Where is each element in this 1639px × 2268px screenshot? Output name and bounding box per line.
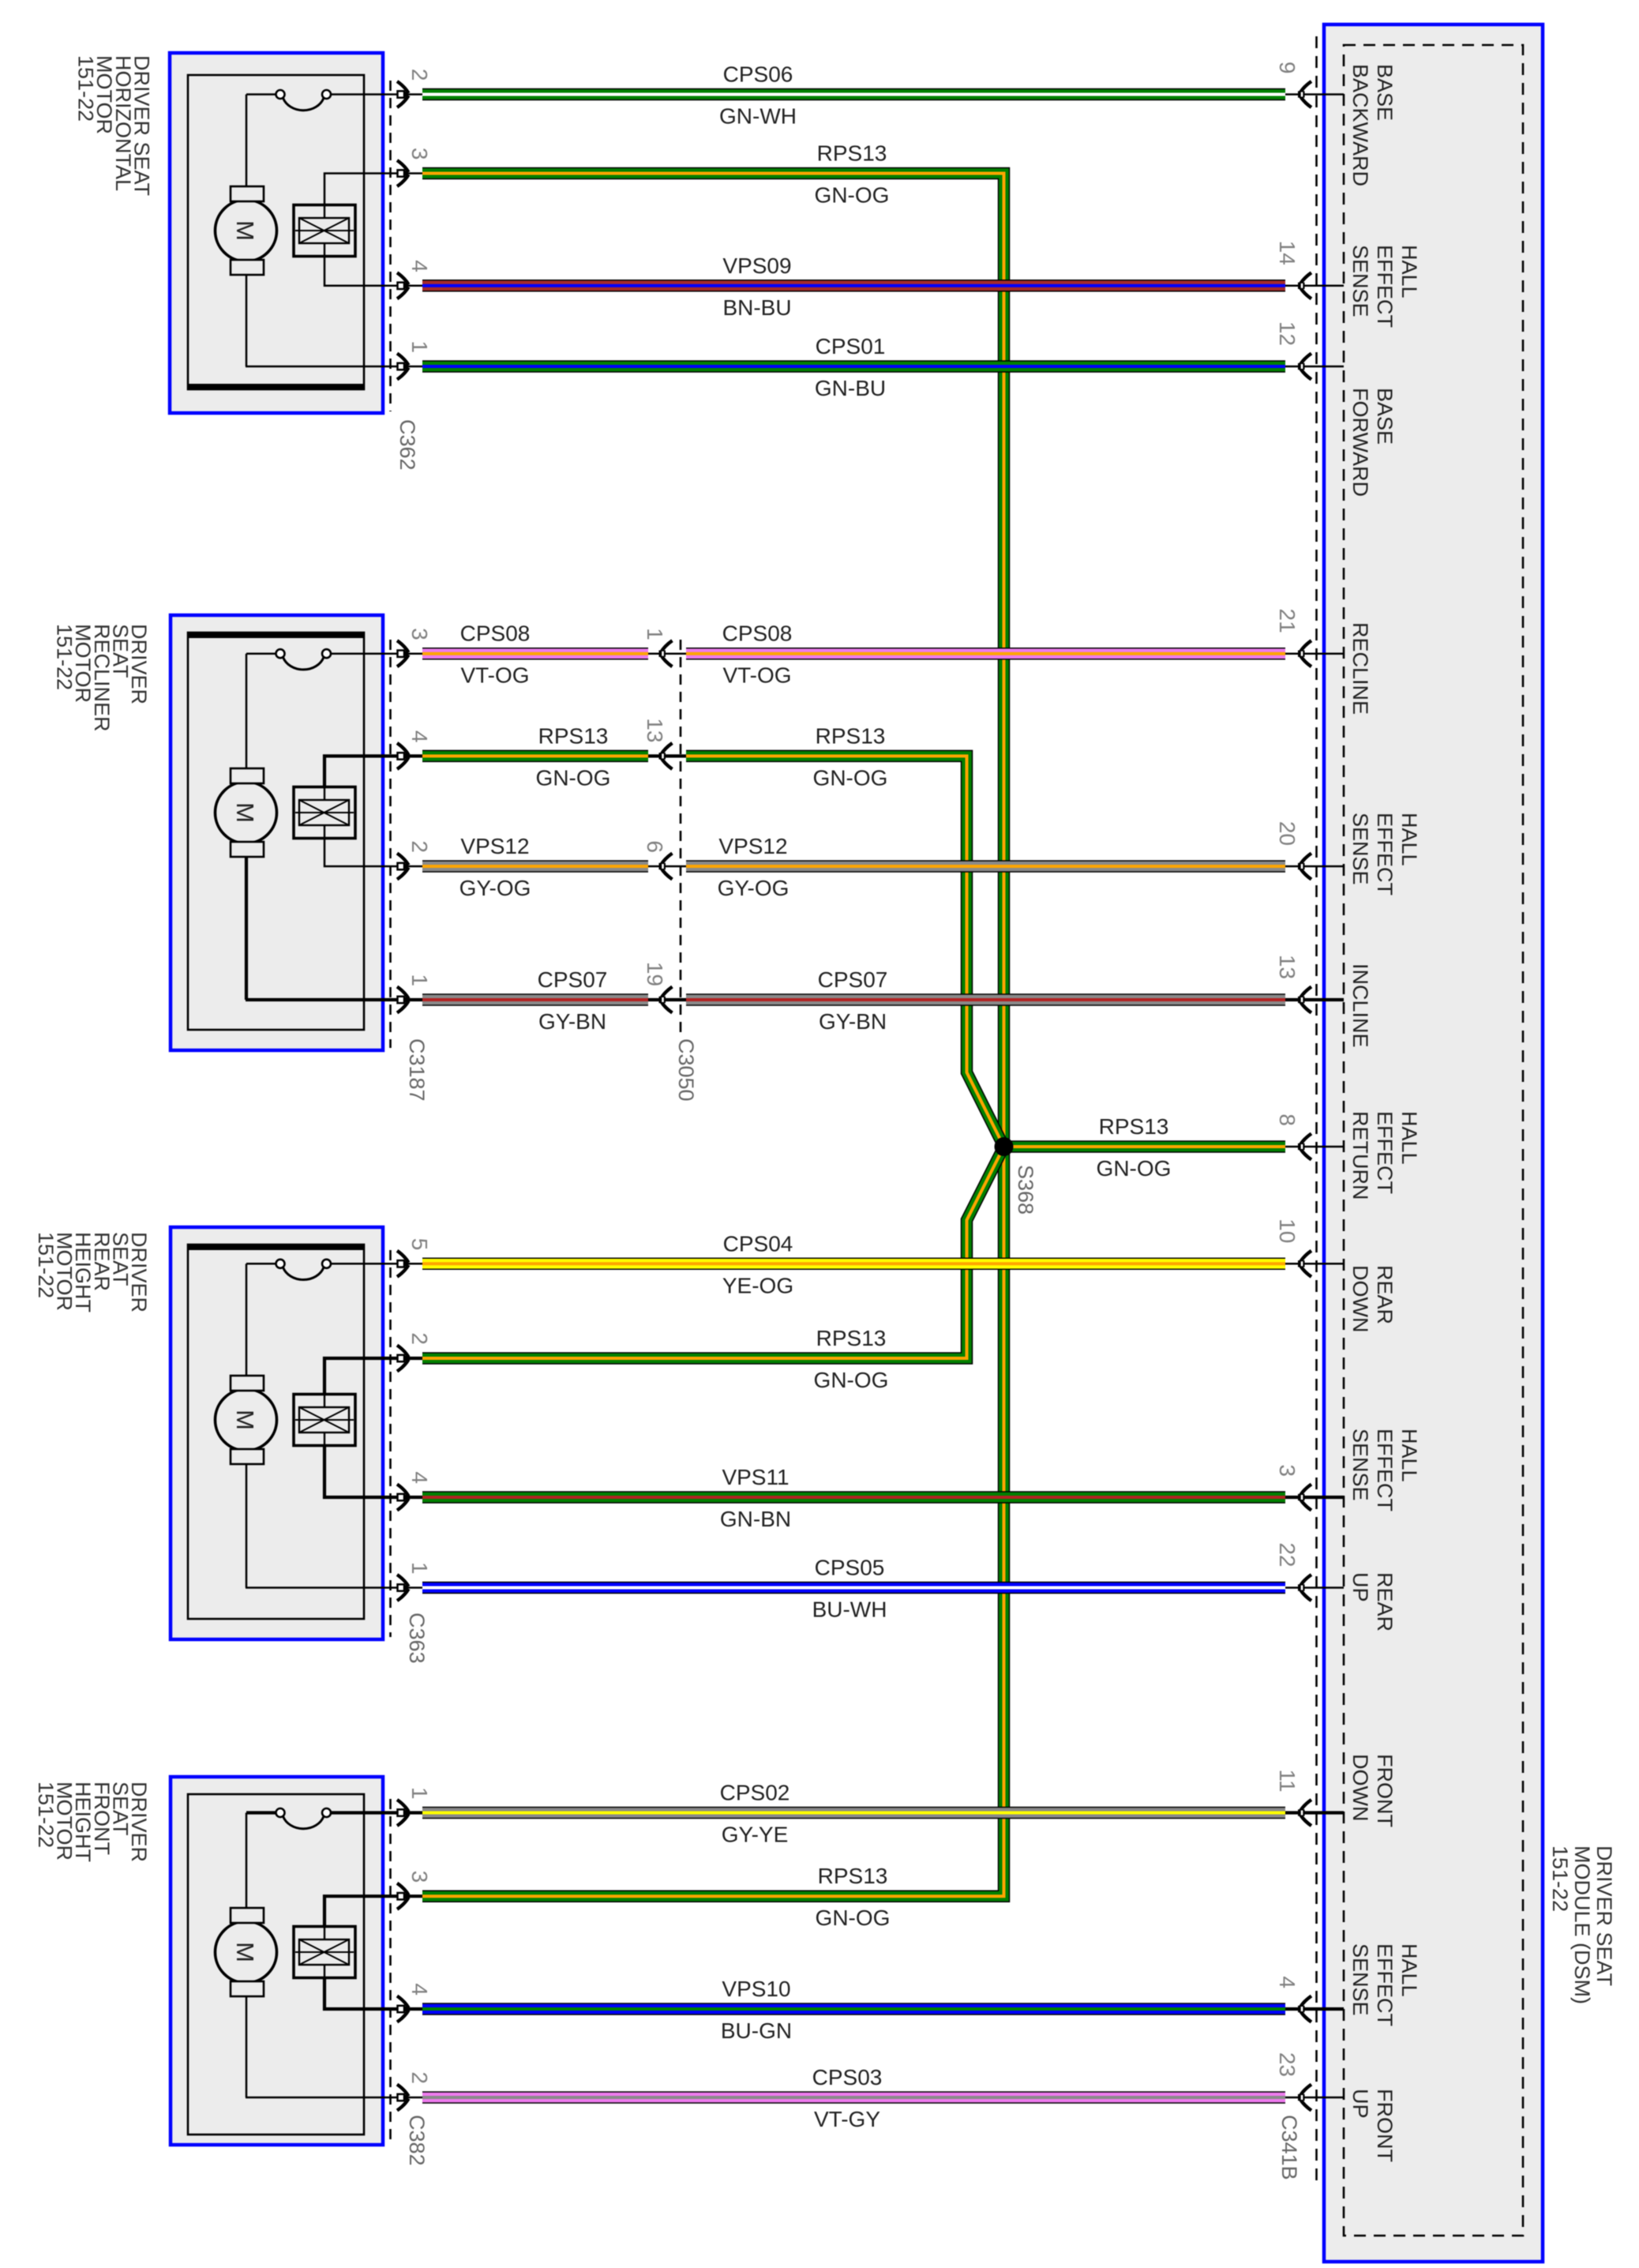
motor 1 top terminal rect xyxy=(231,186,264,201)
motor 1 circle xyxy=(216,200,277,261)
motor 2 wire motor-bottom vertical xyxy=(245,857,248,1000)
motor pin 3 lead line at y=219.5 xyxy=(384,172,422,175)
motor pin 1 lead line at y=2010.5 xyxy=(384,1586,422,1589)
wire CPS08 VT-OG C3050 to DSM pin21 (right segment row5) xyxy=(686,648,1285,660)
motor 4 hall sensor top stub xyxy=(324,1927,325,1940)
svg-text:VT-OG: VT-OG xyxy=(460,663,529,688)
svg-text:M: M xyxy=(231,1942,259,1962)
motor pin 3 connector arrow xyxy=(397,640,410,667)
svg-text:RECLINE: RECLINE xyxy=(1348,622,1372,715)
svg-text:GN-OG: GN-OG xyxy=(815,183,890,208)
svg-text:DRIVER SEAT: DRIVER SEAT xyxy=(1592,1846,1616,1986)
DSM pin 21 connector arrow xyxy=(1298,640,1311,667)
motor 1 hall sensor inner box xyxy=(299,218,349,243)
svg-text:VPS12: VPS12 xyxy=(718,834,787,858)
motor 3 top terminal rect xyxy=(231,1376,264,1391)
svg-text:C341B: C341B xyxy=(1277,2115,1301,2180)
svg-text:4: 4 xyxy=(407,730,432,743)
motor 2 bottom terminal rect xyxy=(231,842,264,857)
motor box 4 outline (DRIVER SEAT FRONT HEIGHT MOTOR) xyxy=(171,1777,383,2145)
svg-text:DOWN: DOWN xyxy=(1348,1265,1372,1332)
motor 3 hall sensor top stub xyxy=(324,1395,325,1408)
motor 4 jumper left terminal circle xyxy=(276,1808,285,1817)
wire CPS04 YE-OG motor3 pin5 to DSM pin10 (row10) xyxy=(422,1258,1285,1271)
svg-text:CPS01: CPS01 xyxy=(816,334,886,359)
motor pin 2 lead line at y=119.5 xyxy=(384,93,422,96)
inline connector C3050 pin 13 arrow xyxy=(659,743,673,769)
motor pin 2 lead line at y=1720.0 xyxy=(384,1357,422,1360)
motor 3 inner rectangle xyxy=(188,1245,364,1619)
svg-text:VPS12: VPS12 xyxy=(460,834,529,858)
svg-text:13: 13 xyxy=(1275,955,1300,979)
motor 2 hall sensor bottom stub xyxy=(324,825,325,839)
svg-text:4: 4 xyxy=(407,1983,432,1996)
motor pin 2 connector arrow xyxy=(397,2085,410,2111)
motor box 1 outline (DRIVER SEAT HORIZONTAL MOTOR) xyxy=(170,53,383,413)
svg-text:151-22: 151-22 xyxy=(34,1782,58,1848)
motor pin 5 lead line at y=1600.3 xyxy=(384,1263,422,1265)
motor 2 inner top thick bar xyxy=(188,633,364,638)
wire CPS02 GY-YE motor4 pin1 to DSM pin11 (row14) xyxy=(422,1807,1285,1819)
motor 3 hall sensor bottom stub xyxy=(324,1433,325,1446)
svg-text:2: 2 xyxy=(407,840,432,853)
DSM pin 20 connector arrow xyxy=(1298,854,1311,880)
svg-text:CPS07: CPS07 xyxy=(818,967,888,992)
DSM pin 4 lead line xyxy=(1285,2007,1344,2011)
motor 1 jumper arc xyxy=(283,98,324,111)
svg-text:GN-OG: GN-OG xyxy=(816,1906,891,1930)
svg-text:2: 2 xyxy=(407,2071,432,2084)
motor 2 jumper right terminal circle xyxy=(322,649,331,658)
motor pin 4 connector arrow xyxy=(397,272,410,299)
motor pin 1 connector arrow xyxy=(397,987,410,1013)
motor pin 4 connector arrow xyxy=(397,1485,410,1511)
motor 4 top terminal rect xyxy=(231,1908,264,1923)
svg-text:REAR: REAR xyxy=(1373,1265,1397,1324)
svg-text:GN-BU: GN-BU xyxy=(815,376,886,400)
motor box 3 outline (DRIVER SEAT REAR HEIGHT MOTOR) xyxy=(171,1227,383,1639)
svg-text:CPS07: CPS07 xyxy=(538,967,608,992)
motor 3 bottom terminal rect xyxy=(231,1449,264,1464)
svg-text:VT-GY: VT-GY xyxy=(814,2107,880,2131)
svg-text:BU-GN: BU-GN xyxy=(721,2018,792,2043)
motor 2 hall bottom lead xyxy=(324,839,384,867)
motor pin 1 connector arrow xyxy=(397,1800,410,1826)
motor 4 wire motor-top vertical xyxy=(246,1813,248,1909)
wire CPS07 GY-BN motor2 pin1 to C3050 (left segment row8) xyxy=(422,993,648,1006)
svg-text:RPS13: RPS13 xyxy=(816,1326,887,1350)
motor pin 4 connector arrow xyxy=(397,743,410,769)
motor 2 circle xyxy=(216,782,277,843)
svg-text:UP: UP xyxy=(1348,1572,1372,1602)
svg-text:CPS08: CPS08 xyxy=(460,621,531,646)
svg-text:GY-BN: GY-BN xyxy=(819,1009,887,1034)
motor 4 hall sensor midline xyxy=(295,1951,354,1953)
motor 3 hall sensor inner box xyxy=(299,1407,349,1433)
motor 2 jumper arc xyxy=(283,657,324,670)
wire VPS12 GY-OG C3050 to DSM pin20 (right segment row7) xyxy=(686,860,1285,873)
svg-text:CPS04: CPS04 xyxy=(723,1231,793,1256)
wire RPS13 GN-OG splice S368 stub to DSM pin 8 (row 9) xyxy=(1004,1140,1286,1153)
svg-text:RPS13: RPS13 xyxy=(538,723,609,748)
connector C362 dashed line xyxy=(389,81,392,411)
svg-text:CPS05: CPS05 xyxy=(815,1556,885,1580)
svg-text:EFFECT: EFFECT xyxy=(1373,245,1397,328)
wire RPS13 GN-OG splice S368 branch down to motor3 pin2 (row 11) xyxy=(422,1147,1004,1358)
motor 4 jumper right line to pin xyxy=(331,1811,384,1814)
motor pin 4 lead line at y=1896.0 xyxy=(384,1496,422,1499)
svg-text:UP: UP xyxy=(1348,2089,1372,2119)
connector C363 dashed line xyxy=(389,1250,392,1637)
motor 1 hall sensor midline xyxy=(295,230,354,231)
motor 3 hall sensor X xyxy=(299,1407,349,1433)
wire CPS01 GN-BU motor1 pin1 to DSM pin12 xyxy=(422,360,1285,373)
motor 1 hall top lead xyxy=(324,174,384,205)
motor box 2 outline (DRIVER SEAT RECLINER MOTOR) xyxy=(171,615,383,1050)
svg-text:C3187: C3187 xyxy=(405,1038,429,1102)
motor pin 2 connector arrow xyxy=(397,854,410,880)
svg-text:YE-OG: YE-OG xyxy=(722,1273,793,1297)
svg-text:151-22: 151-22 xyxy=(53,624,77,690)
motor 2 hall sensor outer box xyxy=(294,787,355,839)
svg-text:5: 5 xyxy=(407,1238,432,1251)
svg-text:BU-WH: BU-WH xyxy=(812,1598,887,1622)
motor 3 circle xyxy=(216,1389,277,1451)
wire RPS13 GN-OG motor1 pin3 to vertical bus and down to motor4 pin3 (rows 2+15) xyxy=(422,174,1004,1897)
svg-text:C382: C382 xyxy=(405,2115,429,2166)
DSM pin 20 lead line xyxy=(1285,866,1344,868)
DSM pin 4 connector arrow xyxy=(1298,1996,1311,2022)
motor 3 inner top thick bar xyxy=(188,1245,364,1250)
svg-text:BN-BU: BN-BU xyxy=(722,295,791,320)
inline connector C3050 pin 6 lead line xyxy=(648,866,686,868)
svg-text:HALL: HALL xyxy=(1397,1111,1421,1165)
motor 4 jumper right terminal circle xyxy=(322,1808,331,1817)
motor pin 5 connector arrow xyxy=(397,1251,410,1277)
svg-text:CPS08: CPS08 xyxy=(722,621,793,646)
motor 4 hall sensor outer box xyxy=(294,1927,355,1978)
wire CPS05 BU-WH motor3 pin1 to DSM pin22 (row13) xyxy=(422,1582,1285,1594)
motor 4 hall top lead xyxy=(324,1896,384,1926)
svg-text:VPS09: VPS09 xyxy=(722,253,791,278)
svg-text:C362: C362 xyxy=(396,419,419,471)
wire RPS13 GN-OG motor2 pin4 to C3050 (left segment row6) xyxy=(422,750,648,763)
svg-text:RPS13: RPS13 xyxy=(1099,1114,1169,1139)
DSM pin 22 lead line xyxy=(1285,1586,1344,1589)
DSM pin 23 connector arrow xyxy=(1298,2085,1311,2111)
connector C382 dashed line xyxy=(389,1799,392,2142)
svg-text:EFFECT: EFFECT xyxy=(1373,813,1397,896)
svg-text:HALL: HALL xyxy=(1397,1429,1421,1482)
connector C3050 dashed line xyxy=(680,640,682,1034)
motor 4 inner rectangle xyxy=(188,1794,364,2135)
wire VPS09 BN-BU motor1 pin4 to DSM pin14 xyxy=(422,280,1285,292)
svg-text:13: 13 xyxy=(643,718,667,742)
svg-text:RPS13: RPS13 xyxy=(818,1864,888,1888)
svg-text:MODULE (DSM): MODULE (DSM) xyxy=(1570,1846,1594,2004)
motor 1 jumper left terminal circle xyxy=(276,90,285,99)
svg-text:3: 3 xyxy=(407,628,432,640)
motor 4 jumper arc xyxy=(283,1816,324,1829)
wire CPS03 VT-GY motor4 pin2 to DSM pin23 (row17) xyxy=(422,2091,1285,2104)
motor 3 wire motor-top vertical xyxy=(246,1264,248,1376)
motor pin 4 lead line at y=957.4 xyxy=(384,754,422,757)
motor 3 jumper right terminal circle xyxy=(322,1260,331,1268)
svg-text:BACKWARD: BACKWARD xyxy=(1348,64,1372,186)
svg-text:11: 11 xyxy=(1275,1769,1300,1792)
inline connector C3050 pin 6 arrow xyxy=(659,854,673,880)
svg-text:19: 19 xyxy=(643,962,667,986)
svg-text:4: 4 xyxy=(407,260,432,272)
svg-text:HALL: HALL xyxy=(1397,813,1421,866)
motor 2 jumper left terminal circle xyxy=(276,649,285,658)
svg-text:151-22: 151-22 xyxy=(1548,1846,1572,1912)
motor 3 jumper arc xyxy=(283,1267,324,1280)
motor 2 hall sensor X xyxy=(299,800,349,825)
motor 1 wire motor-bottom horizontal xyxy=(246,366,384,368)
DSM pin 8 lead line xyxy=(1285,1146,1344,1148)
motor 2 wire motor-top vertical xyxy=(246,654,248,768)
motor 3 wire motor-bottom vertical xyxy=(246,1464,248,1588)
motor pin 3 connector arrow xyxy=(397,160,410,186)
inline connector C3050 pin 19 lead line xyxy=(648,998,686,1001)
motor 2 top terminal rect xyxy=(231,768,264,783)
svg-text:23: 23 xyxy=(1275,2052,1300,2077)
svg-text:GY-YE: GY-YE xyxy=(722,1823,789,1847)
motor 4 hall sensor X xyxy=(299,1939,349,1965)
motor 4 circle xyxy=(216,1921,277,1983)
svg-text:BASE: BASE xyxy=(1373,64,1397,121)
motor 4 hall sensor bottom stub xyxy=(324,1965,325,1978)
motor 3 hall bottom lead xyxy=(324,1446,384,1498)
motor 3 jumper left terminal circle xyxy=(276,1260,285,1268)
motor 1 inner bottom thick bar xyxy=(188,384,364,389)
motor 4 jumper left line xyxy=(246,1811,276,1814)
svg-text:14: 14 xyxy=(1275,241,1300,265)
svg-text:GY-OG: GY-OG xyxy=(718,876,789,900)
svg-text:GN-BN: GN-BN xyxy=(720,1507,791,1531)
svg-text:GN-OG: GN-OG xyxy=(813,765,888,790)
svg-text:2: 2 xyxy=(407,69,432,81)
DSM pin 9 connector arrow xyxy=(1298,81,1311,107)
motor pin 4 lead line at y=2544.0 xyxy=(384,2007,422,2011)
wire CPS08 VT-OG motor2 pin3 to C3050 (left segment row5) xyxy=(422,648,648,660)
svg-text:VT-OG: VT-OG xyxy=(722,663,791,688)
svg-text:VPS11: VPS11 xyxy=(722,1465,789,1489)
svg-text:GN-OG: GN-OG xyxy=(1097,1156,1172,1181)
wire VPS10 BU-GN motor4 pin4 to DSM pin4 (row16) xyxy=(422,2003,1285,2015)
svg-text:EFFECT: EFFECT xyxy=(1373,1429,1397,1511)
svg-text:DOWN: DOWN xyxy=(1348,1754,1372,1821)
motor pin 2 lead line at y=1097.0 xyxy=(384,866,422,868)
motor 1 wire motor-bottom vertical xyxy=(246,275,248,366)
svg-text:1: 1 xyxy=(407,1562,432,1575)
svg-text:21: 21 xyxy=(1275,609,1300,633)
svg-text:20: 20 xyxy=(1275,821,1300,846)
wire VPS11 GN-BN motor3 pin4 to DSM pin3 (row12) xyxy=(422,1491,1285,1504)
motor 4 bottom terminal rect xyxy=(231,1981,264,1996)
motor 4 wire motor-bottom vertical xyxy=(246,1996,248,2097)
motor 2 jumper right line to pin xyxy=(331,652,384,655)
svg-text:HALL: HALL xyxy=(1397,245,1421,299)
motor pin 4 lead line at y=361.8 xyxy=(384,285,422,287)
svg-text:SENSE: SENSE xyxy=(1348,813,1372,885)
DSM pin 11 lead line xyxy=(1285,1811,1344,1814)
svg-text:RETURN: RETURN xyxy=(1348,1111,1372,1200)
motor 2 hall sensor top stub xyxy=(324,787,325,801)
svg-text:CPS03: CPS03 xyxy=(812,2065,883,2090)
motor 4 hall bottom lead xyxy=(324,1978,384,2010)
svg-text:GY-BN: GY-BN xyxy=(538,1009,606,1034)
motor pin 3 connector arrow xyxy=(397,1883,410,1909)
svg-text:FRONT: FRONT xyxy=(1373,2089,1397,2162)
motor pin 1 lead line at y=2295.5 xyxy=(384,1811,422,1814)
svg-text:RPS13: RPS13 xyxy=(816,723,886,748)
inline connector C3050 pin 13 lead line xyxy=(648,754,686,757)
svg-text:1: 1 xyxy=(643,628,667,640)
motor 3 jumper left line xyxy=(246,1263,276,1265)
wire CPS07 GY-BN C3050 to DSM pin13 (right segment row8) xyxy=(686,993,1285,1006)
DSM pin 9 lead line xyxy=(1285,93,1344,96)
svg-text:FORWARD: FORWARD xyxy=(1348,388,1372,497)
wire VPS12 GY-OG motor2 pin2 to C3050 (left segment row7) xyxy=(422,860,648,873)
wire CPS06 GN-WH motor1 pin2 to DSM pin9 xyxy=(422,88,1285,101)
svg-text:EFFECT: EFFECT xyxy=(1373,1943,1397,2026)
svg-text:GN-OG: GN-OG xyxy=(814,1368,889,1392)
DSM pin 10 lead line xyxy=(1285,1263,1344,1265)
connector C3187 dashed line xyxy=(389,640,392,1048)
svg-text:GN-OG: GN-OG xyxy=(536,765,611,790)
svg-text:6: 6 xyxy=(643,840,667,853)
svg-text:1: 1 xyxy=(407,974,432,986)
motor 2 wire motor-bottom horizontal xyxy=(246,998,384,1001)
DSM pin 12 connector arrow xyxy=(1298,354,1311,380)
svg-text:2: 2 xyxy=(407,1332,432,1345)
motor 1 jumper right line to pin xyxy=(331,93,384,96)
svg-text:C363: C363 xyxy=(405,1613,429,1664)
motor 1 jumper right terminal circle xyxy=(322,90,331,99)
svg-text:CPS06: CPS06 xyxy=(723,62,793,87)
DSM pin 14 lead line xyxy=(1285,285,1344,287)
svg-text:3: 3 xyxy=(1275,1464,1300,1477)
inline connector C3050 pin 1 lead line xyxy=(648,652,686,655)
DSM pin 3 lead line xyxy=(1285,1496,1344,1499)
svg-text:INCLINE: INCLINE xyxy=(1348,963,1372,1048)
motor 1 hall bottom lead xyxy=(324,257,384,286)
DSM pin 10 connector arrow xyxy=(1298,1251,1311,1277)
svg-text:GN-WH: GN-WH xyxy=(719,104,797,129)
svg-text:151-22: 151-22 xyxy=(34,1232,58,1298)
svg-text:M: M xyxy=(231,802,259,823)
motor 1 hall sensor X xyxy=(299,218,349,243)
wire RPS13 GN-OG motor2 pin4 branch into splice S368 (row 6) xyxy=(686,756,1004,1147)
motor 1 wire motor-top vertical xyxy=(246,95,248,187)
svg-text:3: 3 xyxy=(407,148,432,160)
DSM inner dashed border xyxy=(1344,45,1523,2236)
splice S368 dot xyxy=(995,1137,1014,1156)
svg-text:GY-OG: GY-OG xyxy=(459,876,531,900)
motor 1 jumper left line xyxy=(246,93,276,96)
driver seat module DSM box outline xyxy=(1324,24,1543,2262)
motor pin 1 lead line at y=1266.0 xyxy=(384,998,422,1001)
svg-text:4: 4 xyxy=(1275,1976,1300,1988)
svg-text:1: 1 xyxy=(407,1787,432,1800)
svg-text:S368: S368 xyxy=(1014,1165,1037,1215)
svg-text:8: 8 xyxy=(1275,1113,1300,1126)
DSM pin 12 lead line xyxy=(1285,366,1344,368)
svg-text:REAR: REAR xyxy=(1373,1572,1397,1632)
motor 1 inner rectangle xyxy=(188,75,364,389)
motor pin 1 connector arrow xyxy=(397,354,410,380)
motor 1 bottom terminal rect xyxy=(231,260,264,275)
DSM pin 3 connector arrow xyxy=(1298,1485,1311,1511)
DSM pin 11 connector arrow xyxy=(1298,1800,1311,1826)
svg-text:HALL: HALL xyxy=(1397,1943,1421,1997)
motor 3 jumper right line to pin xyxy=(331,1263,384,1265)
inline connector C3050 pin 1 arrow xyxy=(659,640,673,667)
svg-text:M: M xyxy=(231,1410,259,1430)
motor pin 2 lead line at y=2656.0 xyxy=(384,2097,422,2099)
motor 4 hall sensor inner box xyxy=(299,1939,349,1965)
DSM pin 21 lead line xyxy=(1285,652,1344,655)
motor pin 2 connector arrow xyxy=(397,1346,410,1372)
motor 2 hall sensor inner box xyxy=(299,800,349,825)
svg-text:FRONT: FRONT xyxy=(1373,1754,1397,1827)
motor 3 hall top lead xyxy=(324,1358,384,1395)
svg-text:12: 12 xyxy=(1275,321,1300,346)
motor pin 1 connector arrow xyxy=(397,1575,410,1601)
svg-text:BASE: BASE xyxy=(1373,388,1397,445)
svg-text:SENSE: SENSE xyxy=(1348,1943,1372,2016)
svg-text:151-22: 151-22 xyxy=(73,55,97,122)
DSM pin 22 connector arrow xyxy=(1298,1575,1311,1601)
connector C341B dashed line xyxy=(1315,36,1318,2181)
motor 2 inner rectangle xyxy=(188,633,364,1030)
motor pin 2 connector arrow xyxy=(397,81,410,107)
svg-text:SENSE: SENSE xyxy=(1348,1429,1372,1501)
svg-text:4: 4 xyxy=(407,1471,432,1484)
motor pin 3 lead line at y=827.7 xyxy=(384,652,422,655)
motor 1 hall sensor outer box xyxy=(294,205,355,257)
motor 2 hall sensor midline xyxy=(295,812,354,813)
motor 3 hall sensor outer box xyxy=(294,1395,355,1446)
DSM pin 14 connector arrow xyxy=(1298,272,1311,299)
svg-text:9: 9 xyxy=(1275,62,1300,74)
motor pin 3 lead line at y=2401.2 xyxy=(384,1894,422,1898)
DSM pin 23 lead line xyxy=(1285,2097,1344,2099)
motor 2 hall top lead xyxy=(324,756,384,787)
svg-text:C3050: C3050 xyxy=(674,1038,698,1102)
DSM pin 8 connector arrow xyxy=(1298,1134,1311,1160)
svg-text:VPS10: VPS10 xyxy=(722,1977,790,2001)
motor 4 wire motor-bottom horizontal xyxy=(246,2097,384,2099)
svg-text:RPS13: RPS13 xyxy=(817,141,887,166)
DSM pin 13 lead line xyxy=(1285,998,1344,1001)
motor pin 4 connector arrow xyxy=(397,1996,410,2022)
motor 3 hall sensor midline xyxy=(295,1419,354,1421)
svg-text:SENSE: SENSE xyxy=(1348,245,1372,317)
inline connector C3050 pin 19 arrow xyxy=(659,987,673,1013)
motor 1 hall sensor top stub xyxy=(324,205,325,219)
svg-text:3: 3 xyxy=(407,1871,432,1883)
motor pin 1 lead line at y=464.0 xyxy=(384,366,422,368)
svg-text:EFFECT: EFFECT xyxy=(1373,1111,1397,1194)
svg-text:M: M xyxy=(231,220,259,241)
motor 2 jumper left line xyxy=(246,652,276,655)
svg-text:10: 10 xyxy=(1275,1218,1300,1243)
motor 1 hall sensor bottom stub xyxy=(324,243,325,257)
DSM pin 13 connector arrow xyxy=(1298,987,1311,1013)
